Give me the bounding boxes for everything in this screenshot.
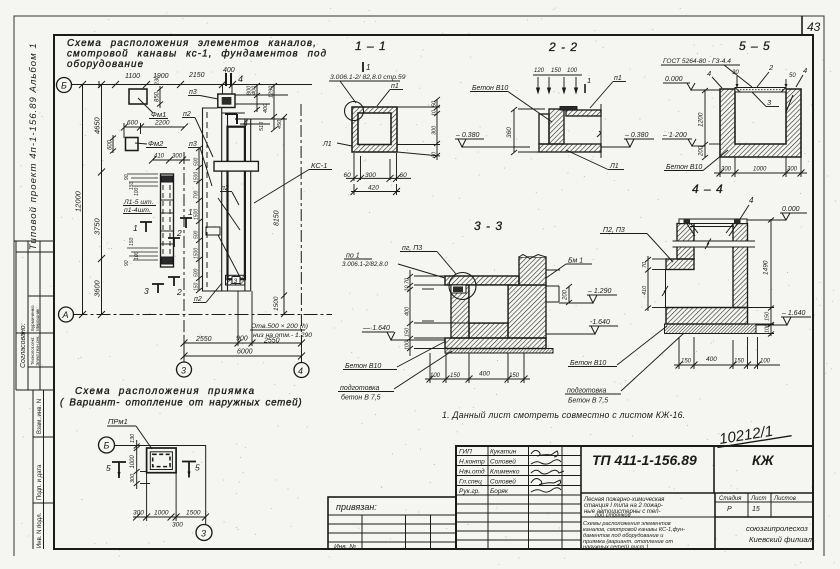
cover plate	[735, 88, 786, 93]
svg-text:Соловей: Соловей	[490, 478, 516, 486]
svg-text:4: 4	[803, 66, 807, 75]
left dim line 4650/3750/3600	[98, 81, 105, 318]
svg-text:300: 300	[365, 172, 376, 179]
svg-text:1500: 1500	[186, 510, 201, 517]
dim 410 300	[149, 157, 190, 164]
name rows	[456, 455, 581, 457]
svg-text:Боряк: Боряк	[490, 488, 509, 495]
svg-text:300: 300	[432, 125, 438, 135]
canal outer P2 contour	[203, 108, 222, 291]
svg-text:4: 4	[749, 196, 754, 205]
svg-text:400: 400	[706, 356, 717, 363]
svg-text:1000: 1000	[130, 454, 136, 468]
svg-text:Лист: Лист	[750, 496, 766, 502]
svg-text:п1: п1	[391, 83, 399, 90]
svg-text:60: 60	[344, 172, 352, 179]
svg-text:100: 100	[567, 68, 578, 74]
svg-text:150: 150	[194, 282, 200, 291]
svg-text:Схема расположения приямка: Схема расположения приямка	[75, 386, 255, 397]
svg-text:-1.640: -1.640	[590, 319, 610, 326]
cut flag 1	[362, 62, 364, 72]
svg-text:Л1: Л1	[609, 163, 619, 170]
svg-text:ГИП: ГИП	[459, 449, 472, 456]
svg-text:п2: п2	[183, 111, 191, 118]
svg-text:Б: Б	[61, 81, 67, 91]
svg-text:300: 300	[133, 510, 144, 517]
svg-text:КС-1: КС-1	[311, 161, 327, 170]
svg-text:2550: 2550	[195, 336, 212, 343]
cut 5 marks	[112, 462, 196, 479]
svg-text:150: 150	[450, 373, 461, 379]
svg-text:400: 400	[263, 103, 269, 113]
svg-text:Элект.техн.сек.: Элект.техн.сек.	[35, 335, 40, 366]
svg-text:3 - 3: 3 - 3	[474, 219, 503, 233]
svg-text:Бетон В10: Бетон В10	[570, 360, 606, 367]
svg-text:наружных сетей) лист 1: наружных сетей) лист 1	[583, 544, 649, 551]
svg-text:300: 300	[130, 473, 136, 483]
svg-text:150: 150	[509, 373, 520, 379]
right wall	[733, 224, 748, 308]
svg-text:Стадия: Стадия	[719, 496, 742, 502]
podgotovka layer	[445, 349, 553, 354]
svg-text:3: 3	[181, 366, 186, 376]
svg-text:3.006.1-2/ 82,8.0 стр.59: 3.006.1-2/ 82,8.0 стр.59	[330, 74, 406, 81]
svg-text:500: 500	[194, 157, 200, 166]
axis B circle	[99, 437, 115, 453]
axis 3 vertical line	[183, 152, 185, 362]
svg-text:П2, П3: П2, П3	[603, 227, 625, 234]
section cut 1 marks	[140, 218, 192, 232]
svg-text:– 1·200: – 1·200	[662, 132, 687, 139]
svg-text:—·1.640: —·1.640	[362, 325, 390, 332]
corner fillets	[687, 224, 698, 236]
svg-text:3: 3	[144, 286, 149, 296]
right edge line	[600, 104, 602, 158]
svg-text:100: 100	[760, 359, 771, 365]
svg-text:Подп. и дата: Подп. и дата	[37, 464, 43, 500]
svg-text:Р: Р	[727, 506, 732, 513]
svg-text:Инв. №: Инв. №	[334, 544, 356, 551]
svg-text:1500: 1500	[194, 209, 200, 220]
svg-text:ГОСТ 5264-80 - ГЗ-4.4: ГОСТ 5264-80 - ГЗ-4.4	[663, 58, 731, 65]
svg-text:2200: 2200	[154, 120, 170, 127]
channel section ring hatched	[352, 107, 397, 152]
svg-text:ТП 411-1-156.89: ТП 411-1-156.89	[592, 452, 697, 468]
svg-text:по 1: по 1	[346, 253, 360, 260]
bottom slab	[445, 338, 546, 349]
fm1 foundation	[129, 89, 147, 104]
svg-text:1: 1	[366, 63, 370, 72]
svg-text:Бетон В10: Бетон В10	[345, 363, 381, 370]
svg-text:4 – 4: 4 – 4	[692, 182, 724, 196]
svg-text:1 – 1: 1 – 1	[355, 39, 387, 53]
bottom dim line	[425, 353, 530, 383]
pit squares	[147, 448, 177, 473]
svg-text:400: 400	[479, 371, 490, 378]
svg-text:500: 500	[194, 230, 200, 239]
svg-text:10: 10	[432, 109, 438, 116]
svg-text:Бм 1: Бм 1	[568, 258, 583, 265]
svg-text:Л1-5 шт.: Л1-5 шт.	[123, 199, 154, 206]
svg-text:10212/1: 10212/1	[718, 423, 774, 448]
dim 2550 900 2550	[181, 340, 306, 347]
svg-text:Отв.500 × 200 (h): Отв.500 × 200 (h)	[251, 323, 308, 330]
svg-text:Бетон В10: Бетон В10	[472, 85, 508, 92]
svg-text:400: 400	[223, 67, 235, 74]
bottom anchor square 3	[226, 275, 245, 285]
svg-text:1490: 1490	[763, 260, 770, 275]
svg-text:Соловей: Соловей	[490, 458, 516, 466]
svg-text:230: 230	[155, 75, 161, 86]
svg-text:Кукатин: Кукатин	[490, 449, 517, 456]
svg-text:150: 150	[129, 237, 135, 246]
podgotovka	[665, 324, 757, 334]
leader diagonals inside canal	[218, 192, 241, 279]
bottom dims	[714, 157, 807, 177]
svg-text:2: 2	[176, 228, 182, 238]
svg-text:100: 100	[430, 373, 441, 379]
section cut 4 lower	[225, 114, 237, 124]
notch with P element	[451, 285, 466, 293]
fm2 foundation	[126, 138, 139, 151]
inner mass right of cavity	[508, 285, 546, 338]
small tick dims lower	[127, 248, 158, 260]
vertical line to 3 circle	[205, 446, 207, 525]
left dim chain	[407, 270, 469, 356]
svg-text:3: 3	[234, 278, 238, 285]
svg-text:А: А	[62, 310, 69, 320]
cut flag 1	[584, 84, 586, 93]
svg-text:Инв. N подл.: Инв. N подл.	[37, 512, 43, 548]
svg-text:150: 150	[734, 359, 745, 365]
svg-text:ПРм1: ПРм1	[108, 417, 128, 426]
svg-text:1100: 1100	[125, 73, 140, 80]
top plate	[679, 219, 747, 224]
svg-text:Бетон В10: Бетон В10	[666, 164, 702, 171]
svg-text:1500: 1500	[194, 172, 200, 183]
svg-text:150: 150	[551, 68, 562, 74]
small tick dims upper	[127, 174, 158, 186]
svg-text:4: 4	[238, 74, 243, 84]
svg-text:– 0.380: – 0.380	[455, 132, 479, 139]
svg-text:60: 60	[432, 151, 438, 158]
cavity floor	[469, 323, 508, 338]
P3 element square top	[218, 94, 235, 108]
svg-text:Взам. инв. N: Взам. инв. N	[37, 399, 43, 434]
pipe through	[673, 241, 756, 247]
section cut 4 top	[226, 73, 231, 86]
svg-text:2150: 2150	[188, 72, 205, 79]
svg-text:Л1: Л1	[322, 141, 332, 148]
left dim line 12000	[79, 81, 86, 318]
dim 70 410 left	[645, 256, 666, 311]
canal inner cavity thick rect	[228, 127, 245, 280]
rotated strip texts	[20, 42, 43, 548]
svg-text:1500: 1500	[194, 248, 200, 259]
axis B line	[72, 84, 313, 86]
page number box 43	[801, 16, 803, 35]
svg-text:8150: 8150	[274, 210, 281, 226]
svg-text:0.000: 0.000	[782, 206, 800, 213]
top dim chain on axis B	[99, 81, 236, 88]
svg-text:Киевский филиал: Киевский филиал	[749, 535, 813, 544]
svg-text:смотровой канавы кс-1, фунд: смотровой канавы кс-1, фундаментов под	[67, 49, 327, 60]
bottom slab	[666, 308, 748, 325]
svg-text:3: 3	[767, 98, 772, 107]
bottom dims	[133, 473, 209, 521]
svg-text:Фм2: Фм2	[148, 139, 164, 148]
left block	[539, 114, 549, 144]
svg-text:70: 70	[405, 277, 411, 284]
ledge lines right	[546, 270, 560, 302]
svg-text:3600: 3600	[93, 279, 102, 297]
dims right of P3	[235, 83, 288, 132]
cavity	[469, 285, 508, 323]
svg-text:100: 100	[134, 251, 140, 260]
svg-text:410: 410	[154, 154, 165, 160]
svg-text:бетон В 7,5: бетон В 7,5	[341, 394, 381, 402]
top plate	[560, 107, 577, 111]
svg-text:Схема расположения элементов: Схема расположения элементов каналов,	[67, 38, 317, 49]
svg-text:420: 420	[368, 185, 379, 192]
svg-text:лой стоянкой: лой стоянкой	[594, 512, 631, 519]
svg-text:1500: 1500	[273, 296, 280, 311]
svg-text:Листов: Листов	[773, 496, 796, 502]
name columns	[487, 446, 489, 549]
bottom dims	[674, 337, 780, 369]
svg-text:Бетон В 7,5: Бетон В 7,5	[568, 398, 608, 405]
left wall	[677, 224, 694, 260]
svg-text:3: 3	[201, 529, 206, 539]
axis 3 circle	[177, 362, 192, 377]
svg-text:900: 900	[236, 336, 248, 343]
left dims	[134, 440, 150, 489]
svg-text:90: 90	[124, 260, 130, 266]
svg-text:500: 500	[194, 268, 200, 277]
svg-text:600: 600	[127, 120, 138, 127]
svg-text:450: 450	[277, 119, 283, 129]
svg-text:300: 300	[721, 167, 732, 173]
crossbar	[214, 161, 258, 171]
svg-text:120: 120	[534, 68, 545, 74]
svg-text:90: 90	[124, 174, 130, 180]
svg-text:1000: 1000	[753, 167, 767, 173]
dim 1200 200	[702, 88, 720, 160]
svg-text:Фм1: Фм1	[151, 110, 166, 119]
svg-text:2550: 2550	[263, 338, 280, 345]
svg-text:1: 1	[188, 207, 193, 217]
svg-text:100: 100	[405, 340, 411, 350]
bottom strip cells	[32, 390, 34, 549]
left wall	[451, 285, 469, 338]
axis B circle	[57, 78, 72, 93]
svg-text:43: 43	[807, 20, 821, 34]
section cut 3 mark	[152, 284, 164, 293]
svg-text:Мирошник: Мирошник	[35, 308, 40, 331]
svg-text:130: 130	[130, 433, 136, 443]
axis A circle	[59, 307, 74, 322]
svg-text:каналов, смотровой канавы КС-1: каналов, смотровой канавы КС-1,фун-	[583, 526, 685, 533]
svg-text:1: 1	[587, 76, 591, 85]
svg-text:410: 410	[642, 285, 648, 295]
Bm1 column	[519, 257, 546, 285]
top slab	[445, 276, 519, 285]
svg-text:– 0.380: – 0.380	[624, 132, 648, 139]
fm2 600 dim	[110, 135, 116, 154]
svg-text:4: 4	[707, 69, 711, 78]
detail circle	[345, 102, 364, 121]
dim 8150 1500 line	[251, 114, 287, 317]
axis 4 vertical line	[300, 104, 303, 363]
axis 4 circle	[294, 363, 309, 378]
dim 360	[511, 107, 545, 155]
extension lines below canal	[184, 291, 302, 363]
U section body	[720, 89, 801, 157]
hatched wall	[549, 109, 564, 144]
right slab	[566, 110, 601, 116]
svg-text:п2: п2	[194, 296, 202, 303]
svg-text:150: 150	[681, 359, 692, 365]
ladder L1 strip	[161, 174, 174, 267]
canal KS-1 walls	[203, 108, 251, 292]
svg-text:пг, П3: пг, П3	[402, 245, 422, 252]
svg-text:3.006.1-2/82,8.0: 3.006.1-2/82,8.0	[342, 261, 388, 268]
right dim line	[397, 97, 440, 160]
dim chain canal left	[196, 146, 202, 293]
svg-text:Типовой проект 4п-1-156.89 Ал: Типовой проект 4п-1-156.89 Альбом 1	[28, 42, 39, 250]
svg-text:30: 30	[732, 70, 739, 76]
svg-text:360: 360	[506, 127, 513, 138]
dim 6000	[181, 353, 306, 360]
detail circle	[449, 273, 476, 300]
svg-text:200: 200	[563, 289, 569, 301]
svg-text:п3: п3	[189, 141, 197, 148]
svg-text:150: 150	[405, 327, 411, 337]
signatures	[531, 450, 564, 492]
svg-text:КЖ: КЖ	[752, 452, 775, 468]
dim 200 right	[566, 284, 572, 305]
dim 1490 150 100 right	[748, 218, 775, 337]
svg-text:850: 850	[155, 91, 161, 102]
svg-text:Нач.отд: Нач.отд	[459, 468, 485, 476]
title block texts	[459, 449, 813, 551]
svg-text:союзгипролесхоз: союзгипролесхоз	[746, 524, 808, 533]
svg-text:150: 150	[765, 311, 771, 321]
svg-text:5 – 5: 5 – 5	[739, 39, 771, 53]
svg-text:150: 150	[129, 181, 135, 190]
soglasovano block	[15, 241, 17, 390]
svg-text:200: 200	[699, 145, 705, 157]
svg-text:4: 4	[298, 366, 303, 376]
svg-text:0.000: 0.000	[665, 76, 683, 83]
svg-text:Н.контр: Н.контр	[459, 459, 485, 466]
svg-text:4650: 4650	[93, 116, 102, 134]
step foot	[666, 259, 694, 270]
top tall cell divider	[14, 240, 54, 242]
svg-text:5: 5	[195, 463, 200, 473]
svg-text:Клименко: Клименко	[490, 469, 520, 476]
svg-text:п1-4шт.: п1-4шт.	[124, 207, 151, 214]
svg-text:15: 15	[752, 506, 760, 513]
svg-text:600: 600	[108, 139, 114, 150]
bottom slab	[539, 144, 601, 152]
svg-text:1290: 1290	[269, 85, 275, 98]
svg-text:– 1.640: – 1.640	[781, 310, 805, 317]
svg-text:привязан:: привязан:	[336, 502, 377, 512]
svg-text:оборудование: оборудование	[67, 59, 144, 70]
svg-text:300: 300	[787, 167, 798, 173]
svg-text:300: 300	[172, 154, 183, 160]
svg-text:100: 100	[765, 323, 771, 333]
svg-text:Рук.гр.: Рук.гр.	[459, 488, 480, 495]
big cells	[713, 446, 715, 493]
svg-text:п1: п1	[614, 75, 622, 82]
svg-text:2: 2	[176, 287, 182, 297]
svg-text:300: 300	[172, 522, 183, 529]
svg-text:1. Данный лист смотреть: 1. Данный лист смотреть совместно с лист…	[442, 410, 685, 420]
svg-text:( Вариант- отопление от нару: ( Вариант- отопление от наружных сетей)	[60, 398, 302, 409]
svg-text:– 1.290: – 1.290	[587, 288, 611, 295]
svg-text:700: 700	[194, 190, 200, 199]
svg-text:800: 800	[247, 85, 253, 95]
dim 600 2200	[121, 123, 188, 138]
svg-text:70: 70	[642, 261, 648, 268]
svg-text:3750: 3750	[93, 217, 102, 235]
svg-text:Б: Б	[104, 441, 110, 451]
svg-text:1: 1	[133, 223, 138, 233]
fm1 dims	[157, 86, 163, 108]
svg-text:50: 50	[789, 73, 796, 79]
svg-text:1000: 1000	[154, 510, 169, 517]
svg-text:510: 510	[259, 121, 265, 131]
svg-text:Согласовано:: Согласовано:	[20, 323, 27, 368]
svg-text:подготовка: подготовка	[567, 387, 606, 395]
section cut 2 marks	[168, 238, 180, 286]
left pit edge	[665, 270, 667, 308]
svg-text:низ на отм.- 1.290: низ на отм.- 1.290	[253, 332, 312, 339]
svg-text:п2: п2	[221, 185, 229, 192]
svg-text:6000: 6000	[237, 349, 253, 356]
svg-text:60: 60	[400, 172, 408, 179]
svg-text:подготовка: подготовка	[340, 384, 379, 392]
right inner diagonal mark	[786, 95, 793, 112]
svg-text:1200: 1200	[698, 112, 705, 127]
svg-text:5: 5	[106, 463, 111, 473]
axis A line	[74, 314, 333, 316]
svg-text:50: 50	[432, 100, 438, 107]
svg-text:2 - 2: 2 - 2	[548, 40, 578, 54]
svg-text:10: 10	[405, 284, 411, 291]
svg-text:12000: 12000	[74, 190, 83, 212]
svg-text:2: 2	[768, 63, 774, 72]
svg-text:400: 400	[405, 306, 411, 316]
bottom dims	[346, 153, 411, 195]
svg-text:п3: п3	[189, 89, 197, 96]
svg-text:Гл.спец: Гл.спец	[459, 479, 482, 486]
